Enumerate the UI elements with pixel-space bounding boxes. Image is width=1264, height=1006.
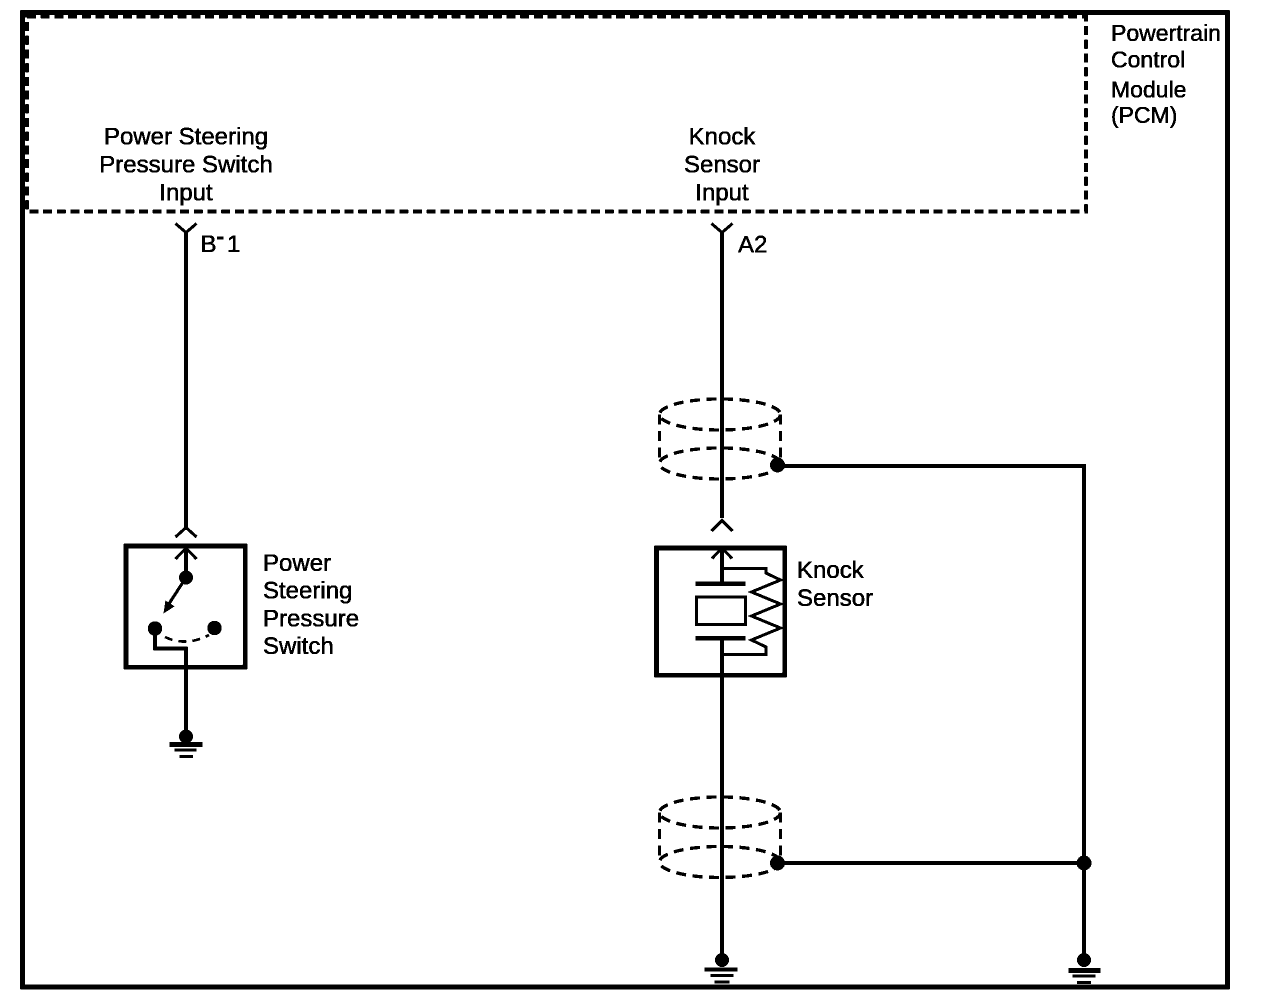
svg-text:Power: Power <box>263 550 331 577</box>
svg-text:A2: A2 <box>738 232 767 259</box>
right shield drain bus wire <box>1082 464 1086 956</box>
wire shield C1 to right bus <box>778 464 1085 468</box>
PCM module dashed box <box>27 17 1086 212</box>
svg-text:Input: Input <box>159 179 213 206</box>
label Powertrain Control Module (PCM) <box>1111 20 1221 128</box>
piezo bottom plate <box>696 636 746 641</box>
svg-text:Pressure Switch: Pressure Switch <box>99 151 272 178</box>
svg-text:B: B <box>201 231 217 258</box>
switch blade with arrowhead <box>164 578 187 614</box>
svg-text:Switch: Switch <box>263 633 334 660</box>
svg-text:Steering: Steering <box>263 578 352 605</box>
wire switch to ground <box>184 669 188 733</box>
svg-text:Powertrain: Powertrain <box>1111 20 1221 46</box>
switch exit wire <box>155 630 186 669</box>
wire knock sensor to ground <box>720 640 724 956</box>
label Knock Sensor <box>797 557 873 612</box>
svg-text:Control: Control <box>1111 47 1185 73</box>
ground G3 (shield drain) <box>1069 953 1101 984</box>
piezo top plate <box>696 582 746 587</box>
knock sensor internal wire top <box>720 567 724 582</box>
svg-text:Knock: Knock <box>689 123 757 150</box>
power steering pressure switch box <box>126 546 245 667</box>
label Power Steering Pressure Switch Input <box>99 123 272 206</box>
wire from pin B11 to switch connector <box>184 233 188 528</box>
ground G2 (knock sensor) <box>705 953 738 983</box>
svg-text:Sensor: Sensor <box>797 585 873 612</box>
junction dot right bus <box>1077 856 1092 871</box>
junction dot shield C1 drain <box>770 458 785 473</box>
wire shield C2 to right bus <box>778 861 1085 865</box>
switch pivot contact dot <box>179 571 193 585</box>
knock sensor box <box>657 548 785 675</box>
label Knock Sensor Input <box>684 123 760 206</box>
pin A2 connector chevron <box>712 224 733 233</box>
svg-text:Pressure: Pressure <box>263 605 359 632</box>
switch right contact dot <box>207 621 221 635</box>
svg-text:Input: Input <box>695 179 749 206</box>
svg-text:Knock: Knock <box>797 557 865 584</box>
label Power Steering Pressure Switch <box>263 550 359 660</box>
switch terminal arrow <box>176 548 197 571</box>
pin B11 connector chevron <box>176 224 197 233</box>
svg-text:Sensor: Sensor <box>684 151 760 178</box>
junction dot shield C2 drain <box>770 856 785 871</box>
shield C2 bottom dashed cylinder <box>660 797 781 878</box>
inline connector chevron above pressure switch <box>176 528 197 538</box>
ground G1 (power steering switch) <box>170 730 203 759</box>
resistor R internal <box>722 569 781 655</box>
svg-text:Module: Module <box>1111 77 1186 103</box>
svg-text:1: 1 <box>227 231 240 258</box>
switch left contact dot <box>148 621 162 635</box>
wire from pin A2 to knock sensor connector <box>720 233 724 519</box>
knock sensor terminal arrow <box>712 548 732 570</box>
svg-text:Power Steering: Power Steering <box>104 123 268 150</box>
inline connector chevron above knock sensor <box>712 521 733 532</box>
pin A2 label <box>738 232 767 259</box>
svg-text:(PCM): (PCM) <box>1111 102 1177 128</box>
shield C1 top dashed cylinder <box>660 399 781 479</box>
switch travel dashed arc <box>165 635 209 642</box>
pin B11 label <box>201 231 241 258</box>
piezo crystal element <box>697 597 746 625</box>
